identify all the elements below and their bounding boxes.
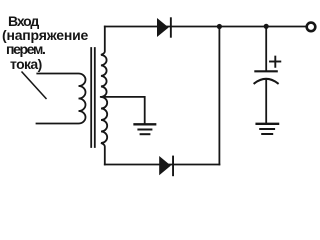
node A junction dot	[217, 24, 222, 29]
capacitor C1 top plate	[255, 70, 276, 72]
pointer line from label to input	[22, 72, 46, 99]
transformer T1 primary winding	[37, 74, 86, 124]
wire: top rail	[105, 26, 306, 28]
wire: center tap to ground	[101, 97, 145, 124]
ground symbol (center tap)	[135, 124, 156, 134]
wire: capacitor branch from node B	[265, 26, 267, 70]
wire: bottom rail	[105, 164, 220, 166]
capacitor C1 plus sign	[270, 57, 280, 67]
output terminal circle	[307, 23, 316, 32]
node B junction dot (capacitor tap)	[264, 24, 269, 29]
capacitor C1 bottom plate (curved, polarized)	[254, 79, 277, 84]
wire: capacitor to ground	[265, 80, 267, 123]
wire: right vertical (node A to bottom rail)	[218, 27, 220, 165]
transformer T1 secondary winding (center-tapped)	[101, 27, 107, 165]
transformer T1 core	[90, 48, 92, 147]
label: input text "Вход (напряжение перем. тока)"	[0, 14, 88, 71]
ground symbol (under capacitor)	[257, 124, 279, 134]
diode VD1 (top)	[157, 17, 172, 37]
diode VD2 (bottom)	[159, 156, 174, 177]
